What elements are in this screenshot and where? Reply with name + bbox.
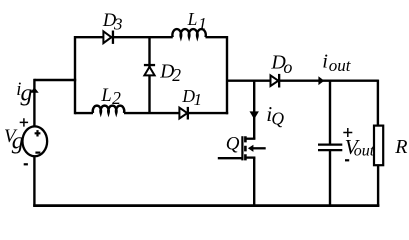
svg-text:out: out [329,56,352,75]
svg-text:i: i [322,51,328,73]
svg-text:out: out [354,143,375,160]
svg-text:g: g [21,81,33,107]
svg-text:3: 3 [113,14,123,33]
svg-text:1: 1 [198,14,207,33]
svg-text:L: L [100,86,111,106]
svg-text:L: L [187,9,198,29]
svg-text:2: 2 [112,88,121,108]
svg-text:2: 2 [172,65,181,85]
svg-text:g: g [12,129,24,155]
svg-text:Q: Q [226,133,240,154]
svg-text:1: 1 [194,90,203,109]
svg-text:Q: Q [271,108,284,128]
svg-text:o: o [283,57,292,77]
svg-text:R: R [394,136,407,158]
